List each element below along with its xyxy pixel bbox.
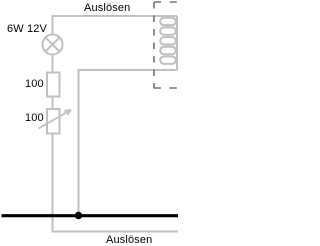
arrow of variable resistor R2 bbox=[39, 110, 72, 129]
label: 6W 12V bbox=[7, 24, 47, 35]
label: 100 (R2) bbox=[25, 113, 44, 124]
label: 100 (R1) bbox=[25, 79, 44, 90]
resistor R2 variable (100) bbox=[47, 109, 60, 134]
wire: lamp bottom to resistor R1 bbox=[52, 54, 54, 73]
wire: between R1 and R2 bbox=[52, 97, 54, 110]
wire: R2 down through bus, L corner to bottom-right rail bbox=[53, 134, 179, 232]
relay coil K1: loop 3 bbox=[160, 37, 176, 44]
dashed enclosure box: top edge bbox=[154, 1, 185, 3]
ground bus (thick black rail) bbox=[2, 214, 179, 217]
junction dot node bbox=[75, 212, 82, 219]
label: Auslösen (bottom) bbox=[106, 235, 152, 246]
lamp 6W 12V bbox=[43, 35, 63, 55]
resistor R1 (100) bbox=[47, 73, 60, 97]
wire: top horizontal from lamp column to coil bbox=[53, 16, 178, 34]
dashed enclosure box: bottom edge bbox=[154, 87, 186, 89]
relay coil K1: loop 5 bbox=[160, 57, 176, 64]
relay coil K1: loop 2 bbox=[160, 27, 176, 34]
relay coil K1: loop 1 bbox=[160, 18, 176, 25]
wire: coil bottom horizontal and middle vertical down to bus bbox=[79, 70, 178, 215]
relay coil K1: loop 4 bbox=[160, 47, 176, 54]
dashed enclosure box: left edge bbox=[153, 2, 155, 88]
relay coil K1: right vertical bbox=[176, 16, 178, 70]
label: Auslösen (top) bbox=[84, 3, 130, 14]
